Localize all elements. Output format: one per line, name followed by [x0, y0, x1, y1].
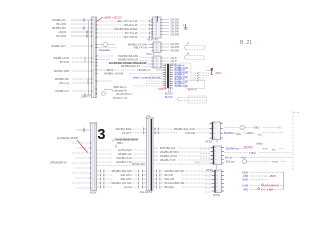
svg-text:BU-xxx: BU-xxx [226, 160, 235, 164]
net rows group B bottom [97, 169, 147, 189]
junction ticks left wires [84, 18, 88, 84]
row R1 right 2 [224, 131, 283, 137]
svg-text:[XXX]: [XXX] [213, 193, 220, 197]
svg-text:WH-BU/WH-x: WH-BU/WH-x [116, 92, 133, 96]
wires mid lower to block C [97, 56, 153, 67]
net labels rows to J2 [97, 68, 165, 80]
connector J1 bar [92, 17, 97, 98]
connector block A [151, 16, 163, 38]
red pointer line bottom left [77, 140, 88, 153]
svg-text:Speaker: Speaker [99, 48, 110, 52]
svg-text:WH/BU/WH: WH/BU/WH [132, 163, 145, 166]
dashed border right [293, 111, 300, 171]
wire loop twisted pair upper [184, 42, 204, 49]
ground NC row 1 [262, 184, 280, 188]
vertical bus line [88, 20, 90, 95]
pin bracket R1 bottom [216, 140, 218, 144]
vertical bus right [283, 172, 285, 191]
connector block R2 [210, 146, 224, 165]
svg-text:Jxxx-YY: Jxxx-YY [81, 94, 91, 98]
svg-text:M: M [187, 52, 189, 55]
component box E [186, 80, 205, 89]
connector block C [151, 56, 163, 68]
svg-text:x-xx: x-xx [241, 156, 246, 159]
component box F and loop [177, 96, 206, 103]
svg-text:BH-[G]+: BH-[G]+ [165, 185, 176, 189]
svg-text:WH/BU-[AW: WH/BU-[AW [54, 69, 70, 73]
svg-text:x-xx: x-xx [263, 148, 268, 151]
ground symbol [183, 24, 187, 29]
red battery row R3 [265, 174, 276, 178]
row R1 right 1 [224, 126, 280, 130]
net labels mid lower group [109, 54, 147, 68]
pin ticks L1 [90, 143, 92, 188]
svg-text:[wr/w]: [wr/w] [124, 185, 132, 189]
svg-text:1-already-W: 1-already-W [112, 89, 127, 93]
svg-text:COLOR: COLOR [185, 131, 195, 135]
svg-text:+B-A-[+]: +B-A-[+] [59, 81, 70, 85]
blue net labels right of J2 [175, 66, 189, 88]
wires left pins of J1 [71, 20, 92, 91]
svg-text:xXX: xXX [146, 115, 151, 118]
wires into J2 left [133, 76, 163, 86]
svg-text:BU/WH-xx: BU/WH-xx [226, 147, 239, 151]
wires J1 to block A [97, 20, 152, 38]
wires into R2 left [200, 149, 210, 162]
connector L1 bar [89, 123, 98, 191]
svg-text:UAD: UAD [242, 178, 248, 182]
svg-text:WH/BU-Y10: WH/BU-Y10 [116, 160, 132, 164]
svg-text:3: 3 [97, 127, 105, 143]
net rows group A bottom [97, 148, 147, 164]
pin ticks J1 [91, 20, 98, 94]
net labels left column lower [53, 56, 69, 93]
svg-text:BU-XX: BU-XX [165, 96, 173, 99]
speaker symbol and row [97, 43, 153, 50]
svg-text:Y/BU-A/YH: Y/BU-A/YH [133, 46, 147, 50]
svg-text:x-NM: x-NM [267, 188, 273, 191]
row R2 right 4 [226, 160, 285, 164]
row R2 right 2 [224, 151, 292, 155]
svg-text:xBxx: xBxx [236, 133, 242, 136]
blue labels below J2 [165, 93, 173, 100]
red +B48 pointer and label [97, 16, 123, 22]
connector block R1 [209, 122, 223, 140]
net labels near J1 bottom [97, 81, 132, 100]
wire J1 bottom pin [82, 94, 92, 97]
svg-text:WH/BU-x-W: WH/BU-x-W [113, 96, 128, 100]
svg-text:BU/WH-x: BU/WH-x [224, 131, 236, 135]
svg-text:x-xx: x-xx [195, 161, 200, 164]
svg-text:WH/BU-+A-DW: WH/BU-+A-DW [104, 72, 124, 76]
svg-text:WH-BU-Y10: WH-BU-Y10 [160, 158, 176, 162]
svg-text:WH/BU-A/Y: WH/BU-A/Y [51, 44, 66, 48]
svg-text:BU-DW: BU-DW [57, 34, 67, 38]
row R2 right 3 [225, 155, 292, 159]
svg-text:GROUND-NC: GROUND-NC [265, 185, 280, 187]
svg-text:BY-DW: BY-DW [60, 60, 69, 64]
svg-text:white 1 parkas dim-ab: white 1 parkas dim-ab [133, 76, 161, 80]
connector J2 dense bar [163, 64, 173, 88]
svg-text:AXXX: AXXX [90, 190, 97, 194]
net labels bottom mid top [115, 127, 146, 135]
row R2 right 1 [226, 147, 285, 152]
svg-text:+BXX: +BXX [269, 174, 276, 178]
svg-text:DG-GFXX: DG-GFXX [140, 190, 152, 194]
net labels right of block C [163, 57, 177, 66]
wire loop twisted pair lower [184, 52, 204, 59]
svg-text:XXXX-XX: XXXX-XX [147, 38, 158, 41]
svg-text:SPEAKER-W: SPEAKER-W [50, 160, 67, 164]
svg-text:+PD: +PD [242, 188, 248, 192]
svg-text:T-Bar: T-Bar [249, 151, 256, 155]
wires into R3 left [205, 172, 212, 192]
svg-text:M: M [187, 42, 189, 45]
svg-text:XXXX: XXXX [205, 139, 212, 143]
floating labels right [244, 142, 263, 149]
net rows group A right of L2 [153, 146, 213, 162]
svg-text:+MN-x: +MN-x [246, 131, 255, 135]
svg-text:XS2-X: XS2-X [158, 87, 166, 91]
svg-text:BA-T/W-W: BA-T/W-W [124, 35, 138, 39]
rows L2 to R1 [153, 127, 212, 135]
rows R3 right blue labels [242, 171, 284, 192]
component box D [180, 63, 192, 72]
ground NC row 2 [258, 188, 273, 192]
net labels right of block B [163, 43, 180, 53]
wires to battery symbol [206, 71, 212, 76]
wires L1 left pins [72, 143, 91, 188]
note block [112, 138, 138, 148]
net labels mid top group [115, 19, 138, 39]
svg-text:Y-BU: Y-BU [253, 126, 259, 130]
svg-text:MXX-X: MXX-X [188, 88, 197, 92]
connector block R3 [212, 170, 224, 193]
wire L1 top pin [76, 128, 91, 132]
svg-text:TEN-BU-A: TEN-BU-A [137, 68, 150, 72]
svg-text:WB-x: WB-x [117, 141, 124, 145]
connector block B [151, 42, 163, 53]
svg-text:x-Bxx: x-Bxx [256, 142, 263, 146]
long wire row right [153, 161, 213, 164]
net rows group B right of L2 [153, 169, 215, 189]
svg-text:x-xxx: x-xxx [272, 161, 279, 164]
svg-text:-B/W-Rxx-x: -B/W-Rxx-x [113, 85, 127, 89]
svg-text:+BXX: +BXX [215, 72, 222, 75]
svg-text:B. 21: B. 21 [240, 40, 252, 46]
connector L2 bar [145, 118, 154, 191]
svg-text:XX-ATY: XX-ATY [122, 131, 132, 135]
svg-text:WH/BU-AY: WH/BU-AY [55, 89, 69, 93]
net labels left column upper [51, 18, 66, 48]
pin bracket below J2 [168, 89, 170, 92]
svg-text:GN-DW: GN-DW [171, 49, 180, 52]
svg-text:GN-DW: GN-DW [171, 33, 180, 36]
svg-text:BU-xx: BU-xx [225, 155, 233, 159]
battery +B symbol [211, 68, 222, 75]
long wire row [97, 163, 147, 166]
net labels right of block A [163, 18, 180, 36]
svg-text:LH-REAR-SPKR: LH-REAR-SPKR [57, 136, 78, 140]
wires with chevrons right of J2 [190, 72, 206, 82]
pin bracket R2 bottom [216, 165, 218, 170]
